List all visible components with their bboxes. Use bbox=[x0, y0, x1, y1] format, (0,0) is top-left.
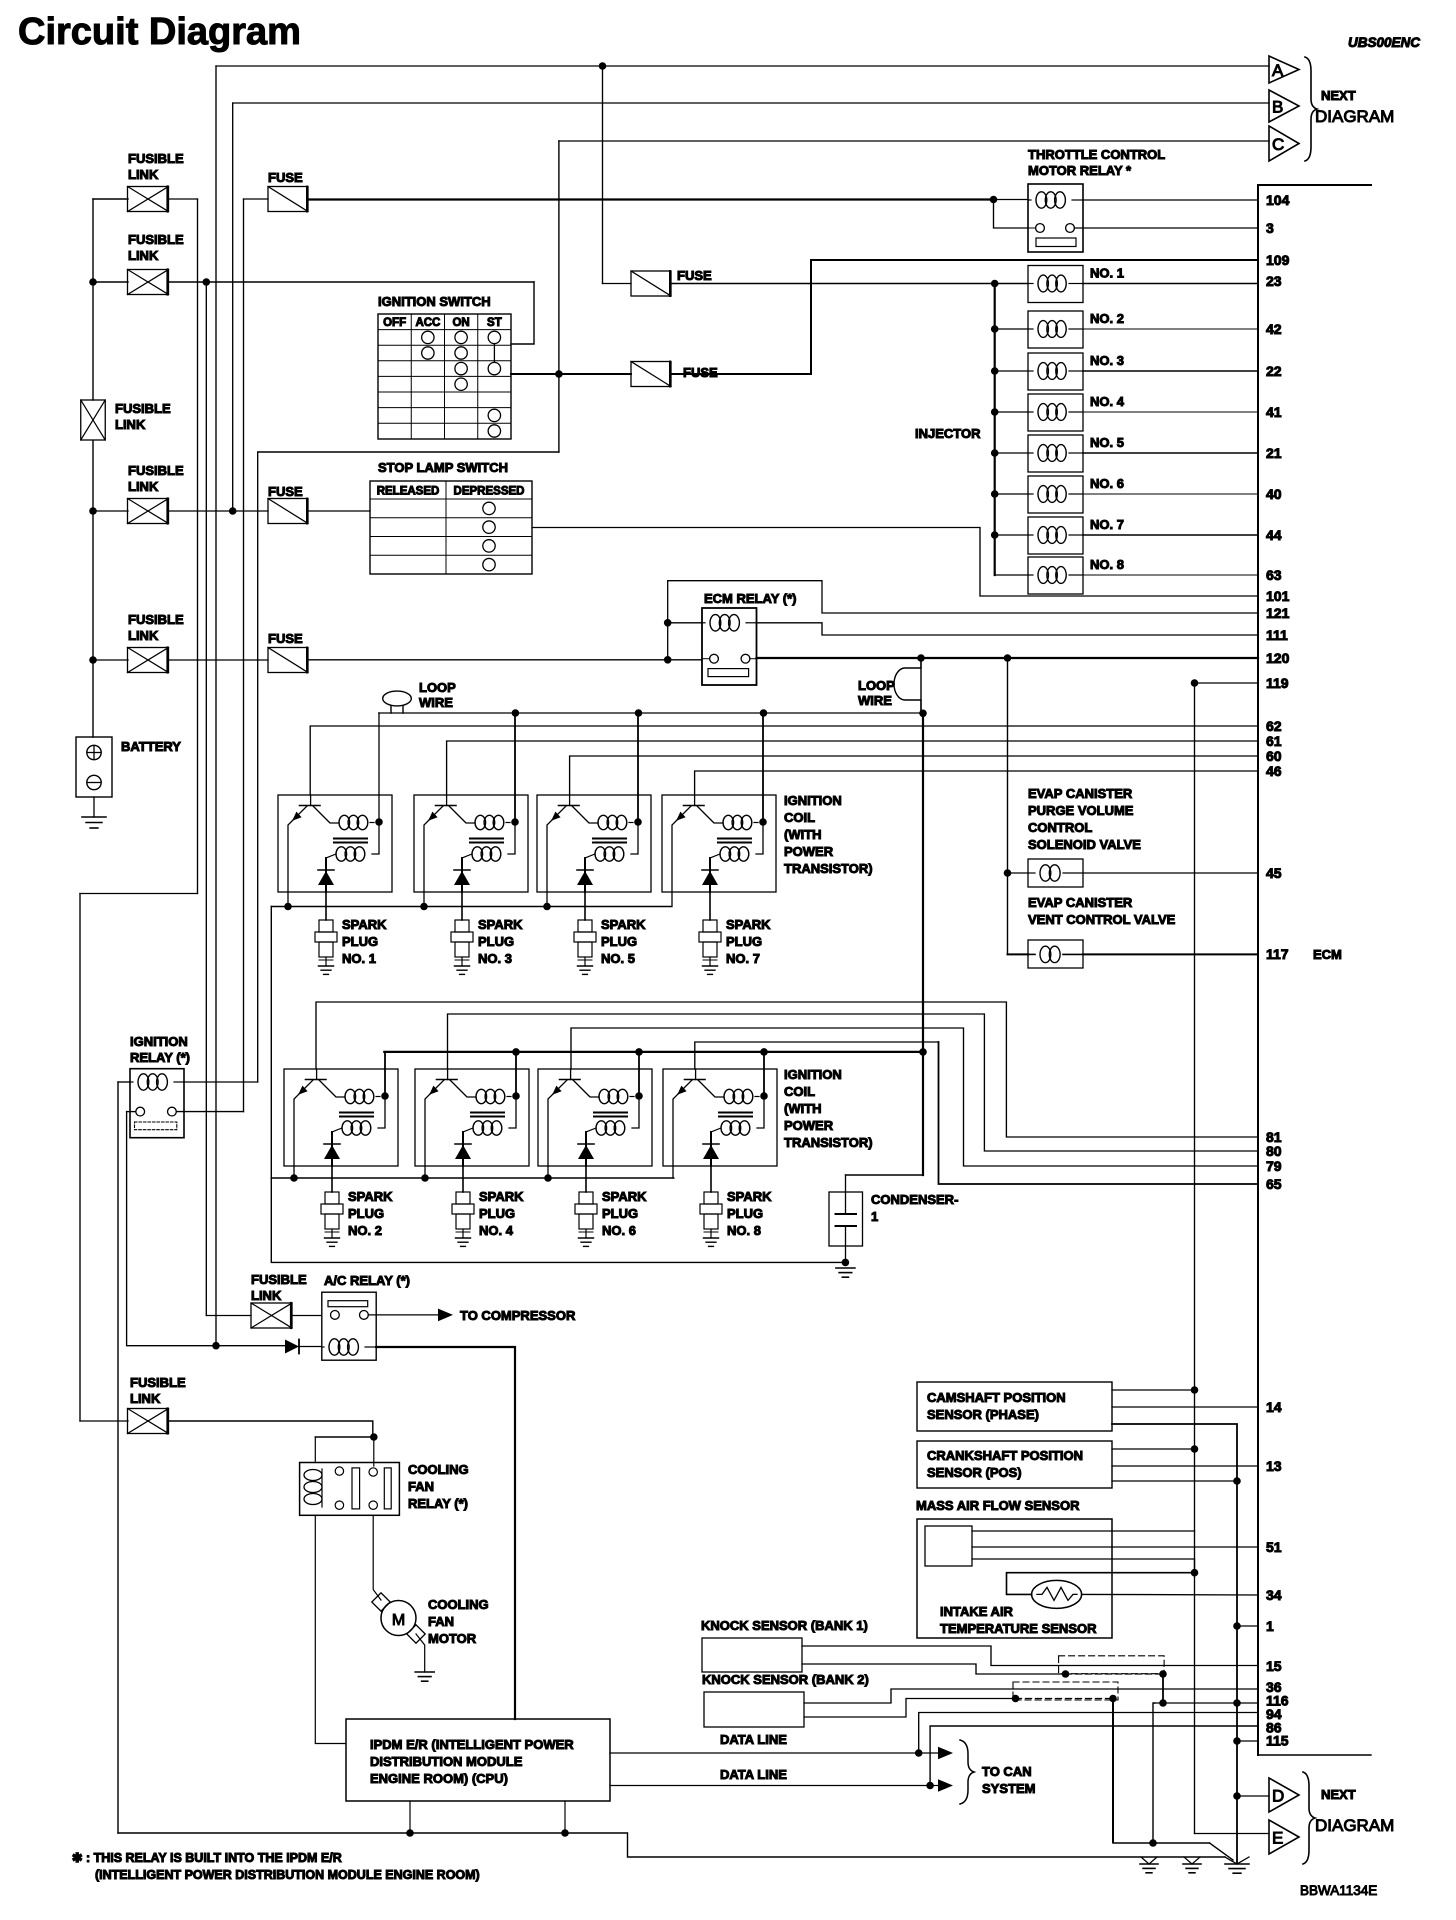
svg-text:121: 121 bbox=[1266, 605, 1290, 621]
coil primary winding bbox=[724, 1089, 735, 1103]
ignition coil unit box bbox=[284, 1069, 398, 1166]
svg-text:PLUG: PLUG bbox=[727, 1206, 763, 1221]
coil primary winding bbox=[475, 815, 486, 829]
junction EVAP purge branch bbox=[1004, 869, 1012, 877]
coil primary winding bbox=[345, 1089, 356, 1103]
shield1 drain wire bbox=[1066, 1673, 1164, 1675]
svg-text:LINK: LINK bbox=[251, 1288, 282, 1303]
secondary to diode link bbox=[463, 1128, 473, 1132]
wire coil row2 unit 4 emitter to bus bbox=[672, 1166, 674, 1178]
fuse FUSE4 (injectors) bbox=[631, 271, 671, 296]
svg-text:DEPRESSED: DEPRESSED bbox=[454, 486, 525, 498]
svg-text:PLUG: PLUG bbox=[342, 934, 378, 949]
spark plug No.5 wire bbox=[584, 892, 586, 920]
svg-text:CONDENSER-: CONDENSER- bbox=[871, 1192, 958, 1207]
throttle relay box bbox=[1028, 184, 1083, 252]
svg-text:DATA LINE: DATA LINE bbox=[720, 1767, 787, 1782]
wire injector NO. 6 to ECM bbox=[1083, 493, 1258, 495]
wire ignition relay left contact to v126.6 bbox=[127, 1111, 136, 1113]
svg-text:KNOCK SENSOR (BANK 2): KNOCK SENSOR (BANK 2) bbox=[702, 1672, 869, 1687]
wire injector NO. 5 to ECM bbox=[1083, 452, 1258, 454]
coil feed connection bbox=[631, 822, 638, 854]
data line 1 arrow bbox=[919, 1752, 938, 1754]
bus vertical F/L1 output down bbox=[197, 199, 199, 894]
svg-text:115: 115 bbox=[1266, 1733, 1289, 1749]
injector NO. 5 feed wire bbox=[995, 452, 1028, 454]
ECM relay outer loop top bbox=[668, 581, 1258, 660]
ignition relay bottom bar bbox=[135, 1122, 177, 1130]
ground rail diagonal to ground3 bbox=[1210, 1843, 1234, 1860]
ignition coil unit box bbox=[537, 795, 651, 892]
svg-text:60: 60 bbox=[1266, 748, 1282, 764]
wire fuse1 to throttle relay (thick) bbox=[309, 198, 994, 200]
wire MAF supply bbox=[972, 1530, 1195, 1532]
intake air temperature sensor loop bbox=[1007, 1573, 1195, 1595]
junction coil primary/feed bbox=[634, 818, 642, 826]
wire coil row1 unit 1 emitter to bus bbox=[287, 892, 289, 907]
injector NO. 3 feed wire bbox=[995, 370, 1028, 372]
coil feed connection bbox=[509, 1096, 516, 1128]
v921 lower segment to condenser row bbox=[922, 1052, 924, 1175]
wire EVAP purge valve to pin 45 bbox=[1083, 872, 1258, 874]
coil secondary winding bbox=[721, 1121, 732, 1135]
wire coil row2 unit 1 emitter to bus bbox=[293, 1166, 295, 1178]
coil primary winding bbox=[476, 1089, 487, 1103]
shield1 drain to pin116 row bbox=[1162, 1674, 1164, 1703]
svg-text:IGNITION: IGNITION bbox=[784, 1067, 842, 1082]
wire injector NO. 8 to ECM bbox=[1083, 574, 1258, 576]
ignition coil unit box bbox=[414, 795, 528, 892]
junction stop lamp feed / line B bus bbox=[229, 507, 237, 515]
wire pin 94 riser bbox=[919, 1713, 1258, 1754]
injector NO. 1 coil bbox=[1038, 275, 1048, 292]
spark plug No.8 bbox=[704, 1192, 718, 1204]
injector NO. 8 coil bbox=[1038, 567, 1048, 584]
coil core bbox=[471, 1112, 504, 1114]
condenser C1 lower stem bbox=[845, 1226, 847, 1262]
svg-text:DIAGRAM: DIAGRAM bbox=[1315, 107, 1394, 126]
svg-text:PLUG: PLUG bbox=[478, 934, 514, 949]
wire A/C relay coil out to v515 bbox=[376, 1347, 515, 1719]
condenser C1 plates bbox=[836, 1213, 857, 1215]
wire KS1 signal to pin 15 bbox=[802, 1646, 1258, 1666]
wire pin 1 stub bbox=[1237, 1625, 1258, 1627]
coil core bbox=[470, 838, 503, 840]
svg-text:EVAP CANISTER: EVAP CANISTER bbox=[1028, 895, 1133, 910]
power transistor bbox=[447, 1069, 449, 1080]
junction pin120 wire / EVAP feed branch bbox=[1004, 654, 1012, 662]
svg-text:NO. 7: NO. 7 bbox=[726, 951, 760, 966]
wire throttle relay contact to pin 3 bbox=[1074, 227, 1258, 229]
ignition switch table frame bbox=[378, 314, 511, 439]
ground symbol 3 (bottom) bbox=[1225, 1857, 1237, 1864]
fusible link F/L4 row wire bbox=[93, 510, 128, 512]
svg-text:NO. 8: NO. 8 bbox=[727, 1223, 761, 1238]
IPDM ground pin 1 bbox=[409, 1801, 411, 1833]
ground return rail below row2 bbox=[271, 1178, 845, 1262]
diode bbox=[710, 1132, 712, 1166]
ignition coil unit box bbox=[663, 1069, 777, 1166]
svg-text:PURGE VOLUME: PURGE VOLUME bbox=[1028, 803, 1134, 818]
svg-text:NO. 1: NO. 1 bbox=[342, 951, 376, 966]
svg-text:KNOCK SENSOR (BANK 1): KNOCK SENSOR (BANK 1) bbox=[701, 1618, 868, 1633]
svg-text:BATTERY: BATTERY bbox=[121, 739, 181, 754]
svg-text:SPARK: SPARK bbox=[601, 917, 646, 932]
wire ECM relay coil to pin 111 bbox=[757, 623, 1259, 635]
injector NO. 5 coil bbox=[1038, 445, 1048, 462]
intake air temperature sensor element bbox=[1032, 1580, 1082, 1608]
svg-text:NO. 1: NO. 1 bbox=[1090, 266, 1124, 281]
wire pin 86 riser bbox=[930, 1726, 1258, 1786]
cooling fan relay coil (stacked loops) bbox=[304, 1470, 322, 1481]
wire crankshaft sensor signal to pin 13 bbox=[1112, 1465, 1258, 1467]
IPDM ground pin 2 bbox=[564, 1801, 566, 1833]
injector NO. 2 box bbox=[1028, 311, 1083, 348]
spark plug No.7 wire bbox=[709, 892, 711, 920]
loop wire 2 (vertical with left bulge) bbox=[894, 658, 921, 713]
svg-text:(WITH: (WITH bbox=[784, 827, 822, 842]
svg-text:46: 46 bbox=[1266, 763, 1282, 779]
fusible link F/L3 (vertical, in battery chain) bbox=[81, 400, 106, 440]
svg-text:65: 65 bbox=[1266, 1176, 1282, 1192]
svg-text:SPARK: SPARK bbox=[602, 1189, 647, 1204]
fusible link F/L1 row wire bbox=[93, 198, 128, 200]
junction battery chain / F/L2 row bbox=[89, 278, 97, 286]
power transistor bbox=[694, 795, 696, 806]
wire injector fuse feed bbox=[602, 66, 604, 284]
secondary to diode link bbox=[332, 1128, 342, 1132]
svg-text:PLUG: PLUG bbox=[726, 934, 762, 949]
fusible link F/L5 bbox=[128, 648, 169, 673]
shield2 drain vertical to ground rail (thick) bbox=[1112, 1699, 1114, 1843]
svg-text:FUSE: FUSE bbox=[677, 268, 712, 283]
ignition coil row2 base drive wire (pin row y=1184) bbox=[695, 1042, 939, 1069]
wire to EVAP vent valve (thick) bbox=[1008, 953, 1029, 955]
svg-text:23: 23 bbox=[1266, 273, 1282, 289]
injector NO. 7 coil bbox=[1038, 527, 1048, 544]
ECM relay box bbox=[702, 608, 757, 685]
injector NO. 3 box bbox=[1028, 353, 1083, 390]
EVAP purge valve coil bbox=[1040, 865, 1051, 881]
injector supply bus vertical bbox=[994, 284, 996, 576]
condenser ground symbol bbox=[836, 1267, 855, 1269]
ignition coil row2 unit 1 feed from bus bbox=[384, 1052, 386, 1096]
wire fuse5 feed from F/L5 bbox=[169, 659, 269, 661]
svg-text:SENSOR (PHASE): SENSOR (PHASE) bbox=[927, 1407, 1039, 1422]
wire crankshaft sensor supply bbox=[1112, 1448, 1195, 1450]
fusible link (A/C) bbox=[251, 1303, 292, 1328]
wire line A to next diagram bbox=[216, 65, 1269, 67]
sensor supply vertical v1194.5 bbox=[1194, 683, 1196, 1834]
stop lamp switch table frame bbox=[370, 481, 532, 574]
injector NO. 6 coil bbox=[1038, 486, 1048, 503]
wire throttle relay contact feed bbox=[994, 200, 1029, 229]
bus vertical x80 down to lower fusible link bbox=[79, 894, 81, 1422]
ignition coil row1 base drive wire (pin row y=726) bbox=[310, 726, 1258, 795]
IPDM E/R box bbox=[346, 1719, 610, 1801]
svg-text:TEMPERATURE SENSOR: TEMPERATURE SENSOR bbox=[940, 1621, 1097, 1636]
shield box 1 (dashed) bbox=[1059, 1656, 1165, 1674]
fuse FUSE5 (ECM relay) bbox=[268, 648, 308, 673]
vertical v126.6 down to A/C diode row bbox=[127, 1112, 216, 1346]
coil primary winding bbox=[598, 815, 609, 829]
shield2 drain wire bbox=[1016, 1698, 1114, 1700]
injector NO. 4 feed wire bbox=[995, 411, 1028, 413]
svg-text:BBWA1134E: BBWA1134E bbox=[1300, 1883, 1377, 1898]
bus vertical fuse1 feed down to ignition relay contact bbox=[243, 199, 245, 1112]
coil feed connection bbox=[372, 822, 379, 854]
ignition coil row2 base drive wire (pin row y=1137) bbox=[316, 1002, 1258, 1137]
svg-text:111: 111 bbox=[1266, 627, 1288, 643]
injector NO. 2 coil bbox=[1038, 321, 1048, 338]
wire ignition relay coil right to v257.7 bbox=[184, 1081, 258, 1083]
spark plug No.1 ground bbox=[319, 965, 334, 967]
svg-text:FUSE: FUSE bbox=[268, 484, 303, 499]
ignition coil unit box bbox=[662, 795, 776, 892]
coil feed connection bbox=[632, 1096, 639, 1128]
svg-text:COIL: COIL bbox=[784, 810, 815, 825]
svg-text:1: 1 bbox=[1266, 1618, 1274, 1634]
svg-text:LOOP: LOOP bbox=[419, 680, 456, 695]
bus vertical from line B down to stop lamp feed bbox=[232, 103, 234, 511]
wire ignition switch ST output row bbox=[511, 373, 631, 375]
spark plug No.8 wire bbox=[710, 1166, 712, 1192]
ignition coil unit box bbox=[538, 1069, 652, 1166]
bus jog F/L1 output to x80 bbox=[80, 893, 198, 895]
junction spark bus row2 / coil 1 emitter bbox=[290, 1174, 298, 1182]
svg-text:LINK: LINK bbox=[128, 248, 159, 263]
svg-text:FUSIBLE: FUSIBLE bbox=[128, 151, 184, 166]
connector arrow C to next diagram bbox=[1269, 126, 1299, 161]
cooling fan relay slot bars bbox=[352, 1468, 360, 1509]
secondary to diode link bbox=[462, 854, 472, 858]
svg-text:14: 14 bbox=[1266, 1399, 1282, 1415]
injector NO. 8 feed wire bbox=[995, 574, 1028, 576]
svg-text:MOTOR: MOTOR bbox=[428, 1631, 477, 1646]
junction bus1051 / v921 bbox=[919, 1048, 927, 1056]
svg-text:E: E bbox=[1272, 1829, 1283, 1848]
junction ground rail / condenser ground bbox=[842, 1259, 850, 1267]
wire fan relay contact to motor bbox=[373, 1515, 381, 1600]
svg-text:104: 104 bbox=[1266, 192, 1290, 208]
junction battery chain / F/L5 row bbox=[89, 656, 97, 664]
wire throttle relay coil feed junction bbox=[990, 196, 998, 204]
svg-text:SPARK: SPARK bbox=[726, 917, 771, 932]
ignition coil unit box bbox=[278, 795, 392, 892]
svg-text:79: 79 bbox=[1266, 1158, 1282, 1174]
svg-text:109: 109 bbox=[1266, 252, 1290, 268]
svg-text:80: 80 bbox=[1266, 1143, 1282, 1159]
svg-text:A: A bbox=[1272, 61, 1284, 80]
wire camshaft sensor supply bbox=[1112, 1389, 1195, 1391]
spark plug No.2 bbox=[325, 1192, 339, 1204]
MAF inner element bbox=[925, 1526, 972, 1566]
coil core bbox=[719, 1112, 752, 1114]
junction pin119 / sensor supply vertical bbox=[1191, 679, 1199, 687]
ignition coil row1 unit 3 feed from bus bbox=[637, 713, 639, 822]
svg-text:NO. 4: NO. 4 bbox=[1090, 394, 1125, 409]
svg-text:15: 15 bbox=[1266, 1658, 1282, 1674]
svg-text:NO. 3: NO. 3 bbox=[1090, 353, 1124, 368]
ECM connector left edge bbox=[1257, 185, 1259, 1755]
mass air flow sensor box bbox=[917, 1519, 1112, 1638]
cooling fan motor bbox=[381, 1601, 416, 1636]
spark plug No.5 bbox=[578, 920, 592, 932]
svg-text:RELAY (*): RELAY (*) bbox=[130, 1050, 190, 1065]
junction spark bus row2 / coil 3 emitter bbox=[544, 1174, 552, 1182]
ignition coil row1 unit 2 feed from bus bbox=[514, 713, 516, 822]
cooling fan relay contacts bbox=[335, 1467, 343, 1475]
svg-text:DIAGRAM: DIAGRAM bbox=[1315, 1816, 1394, 1835]
svg-text:ECM: ECM bbox=[1313, 947, 1342, 962]
ignition switch contact circles bbox=[422, 331, 434, 343]
ignition relay box bbox=[130, 1069, 184, 1138]
junction data line 1 / pin 94 riser bbox=[915, 1749, 923, 1757]
svg-text:1: 1 bbox=[871, 1209, 878, 1224]
junction pin120 wire / loop-wire branch bbox=[917, 654, 925, 662]
injector NO. 6 box bbox=[1028, 476, 1083, 513]
wire line B to next diagram bbox=[233, 102, 1269, 104]
spark plug No.8 ground bbox=[704, 1237, 719, 1239]
junction line A / injector fuse drop bbox=[599, 62, 607, 70]
shield box 2 (dashed) bbox=[1013, 1682, 1118, 1700]
spark plug No.6 bbox=[579, 1192, 593, 1204]
ECM relay bottom bar bbox=[708, 669, 749, 677]
power transistor bbox=[570, 1069, 572, 1080]
svg-text:13: 13 bbox=[1266, 1458, 1282, 1474]
svg-text:PLUG: PLUG bbox=[602, 1206, 638, 1221]
svg-text:LINK: LINK bbox=[115, 417, 146, 432]
injector NO. 8 box bbox=[1028, 557, 1083, 594]
knock sensor bank1 box bbox=[702, 1638, 802, 1672]
condenser C1 box bbox=[829, 1192, 863, 1246]
junction spark bus row1 / coil 3 emitter bbox=[543, 903, 551, 911]
svg-text:NO. 8: NO. 8 bbox=[1090, 557, 1124, 572]
fuse FUSE2 (start signal) bbox=[631, 362, 671, 387]
ignition coil row1 base drive wire (pin row y=741) bbox=[447, 741, 1258, 795]
svg-text:COOLING: COOLING bbox=[428, 1597, 489, 1612]
coil primary winding bbox=[599, 1089, 610, 1103]
svg-text:(WITH: (WITH bbox=[784, 1101, 822, 1116]
junction shield1 right bbox=[1159, 1670, 1167, 1678]
svg-text:B: B bbox=[1272, 98, 1283, 117]
svg-text:SPARK: SPARK bbox=[478, 917, 523, 932]
svg-text:EVAP CANISTER: EVAP CANISTER bbox=[1028, 786, 1133, 801]
svg-text:INTAKE AIR: INTAKE AIR bbox=[940, 1604, 1014, 1619]
power transistor bbox=[310, 795, 312, 806]
svg-text:FUSIBLE: FUSIBLE bbox=[251, 1272, 307, 1287]
junction ECM relay outer / coil feed bbox=[664, 619, 672, 627]
throttle relay coil bbox=[1036, 192, 1047, 208]
svg-text:101: 101 bbox=[1266, 588, 1290, 604]
diode bbox=[584, 858, 586, 892]
svg-text:CRANKSHAFT POSITION: CRANKSHAFT POSITION bbox=[927, 1448, 1083, 1463]
junction coil primary/feed bbox=[760, 1092, 768, 1100]
ground rail knock sensors bbox=[1113, 1842, 1210, 1844]
spark plug No.7 ground bbox=[703, 965, 718, 967]
injector NO. 3 coil bbox=[1038, 363, 1048, 380]
ignition coil row1 unit 1 feed from bus bbox=[378, 713, 380, 822]
svg-text:ST: ST bbox=[487, 317, 502, 329]
injector NO. 4 box bbox=[1028, 394, 1083, 431]
coil primary winding bbox=[339, 815, 350, 829]
secondary to diode link bbox=[711, 1128, 721, 1132]
wire A/C fusible to relay contact bbox=[292, 1315, 322, 1317]
svg-text:FUSIBLE: FUSIBLE bbox=[128, 463, 184, 478]
svg-text:RELAY (*): RELAY (*) bbox=[408, 1496, 468, 1511]
junction shield2 right bbox=[1109, 1695, 1117, 1703]
svg-text:IGNITION: IGNITION bbox=[130, 1034, 188, 1049]
knock sensor bank2 box bbox=[704, 1692, 804, 1727]
svg-text:41: 41 bbox=[1266, 404, 1282, 420]
ignition coil row1 base drive wire (pin row y=756) bbox=[570, 756, 1258, 795]
svg-text:RELEASED: RELEASED bbox=[377, 486, 440, 498]
junction spark bus row1 / coil 2 emitter bbox=[420, 903, 428, 911]
A/C relay contacts bbox=[331, 1311, 340, 1320]
fuse FUSE1 bbox=[268, 187, 308, 212]
spark plug No.2 wire bbox=[331, 1166, 333, 1192]
vertical v1153 pin116 to ground rail bbox=[1153, 1703, 1155, 1842]
coil feed connection bbox=[756, 822, 763, 854]
spark bus row1 bbox=[271, 906, 672, 908]
junction coil primary/feed bbox=[381, 1092, 389, 1100]
coil secondary winding bbox=[720, 847, 731, 861]
connector arrow E to next diagram bbox=[1269, 1820, 1299, 1854]
wire condenser top to coil bus row bbox=[846, 1174, 924, 1176]
svg-text:ECM RELAY (*): ECM RELAY (*) bbox=[704, 591, 796, 606]
svg-text:NO. 3: NO. 3 bbox=[478, 951, 512, 966]
ignition coil row1 unit 4 feed from bus bbox=[762, 713, 764, 822]
svg-text:FAN: FAN bbox=[408, 1479, 434, 1494]
coil secondary winding bbox=[473, 1121, 484, 1135]
junction spark bus row1 / coil 1 emitter bbox=[284, 903, 292, 911]
junction coil primary/feed bbox=[759, 818, 767, 826]
junction fan relay feed bbox=[370, 1433, 378, 1441]
secondary to diode link bbox=[586, 1128, 596, 1132]
svg-text:FUSIBLE: FUSIBLE bbox=[128, 612, 184, 627]
svg-text:M: M bbox=[392, 1612, 405, 1629]
coil core bbox=[340, 1112, 373, 1114]
svg-text:NO. 4: NO. 4 bbox=[479, 1223, 514, 1238]
wire injector NO. 7 to ECM bbox=[1083, 534, 1258, 536]
svg-text:40: 40 bbox=[1266, 486, 1282, 502]
junction shield2 left bbox=[1012, 1695, 1020, 1703]
svg-text:Circuit Diagram: Circuit Diagram bbox=[18, 11, 301, 53]
svg-text:CAMSHAFT POSITION: CAMSHAFT POSITION bbox=[927, 1390, 1066, 1405]
stop lamp switch contact circles bbox=[483, 502, 495, 514]
wire stop lamp switch output to pin 101 bbox=[532, 528, 1258, 597]
data line 2 arrow bbox=[930, 1785, 938, 1787]
wire fan relay coil bottom to IPDM bbox=[315, 1515, 346, 1743]
loop wire 1 (bulge above wire) bbox=[391, 706, 403, 714]
ignition coil row2 unit 3 feed from bus bbox=[638, 1052, 640, 1096]
svg-text:FAN: FAN bbox=[428, 1614, 454, 1629]
spark plug No.7 bbox=[703, 920, 717, 932]
junction coil primary/feed bbox=[511, 818, 519, 826]
throttle relay contacts bbox=[1036, 224, 1045, 233]
svg-text:POWER: POWER bbox=[784, 1118, 834, 1133]
power transistor bbox=[569, 795, 571, 806]
svg-text:SYSTEM: SYSTEM bbox=[982, 1781, 1035, 1796]
svg-text:TRANSISTOR): TRANSISTOR) bbox=[784, 861, 873, 876]
svg-text:SPARK: SPARK bbox=[727, 1189, 772, 1204]
wire diode to A/C relay coil bbox=[299, 1346, 322, 1348]
svg-text:MASS AIR FLOW SENSOR: MASS AIR FLOW SENSOR bbox=[916, 1498, 1080, 1513]
svg-text:LINK: LINK bbox=[128, 479, 159, 494]
junction bus713 / v921 bbox=[919, 710, 927, 718]
stop lamp switch column divider bbox=[445, 481, 447, 574]
spark plug No.3 ground bbox=[455, 965, 470, 967]
